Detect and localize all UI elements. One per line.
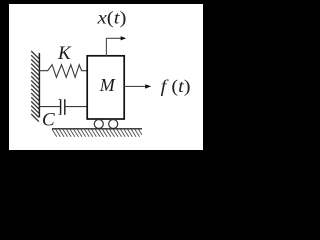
- spring K: [39, 65, 87, 78]
- mass M box: [87, 56, 124, 119]
- svg-text:K: K: [57, 43, 72, 64]
- black page background: [0, 0, 211, 194]
- damper C (dashpot): [39, 99, 87, 115]
- bottom tick: [59, 114, 61, 116]
- displacement arrow x(t): [106, 38, 120, 56]
- white diagram card: [9, 4, 203, 150]
- svg-text:M: M: [99, 75, 116, 95]
- ground line: [52, 128, 142, 130]
- wall hatching: [31, 51, 39, 122]
- wheel right: [109, 120, 118, 129]
- force arrow f(t): [124, 85, 145, 87]
- right lead: [65, 106, 87, 108]
- left lead: [39, 106, 60, 108]
- ground hatching: [52, 129, 142, 137]
- top tick: [59, 98, 61, 100]
- wheel left: [94, 120, 103, 129]
- piston plate: [60, 99, 62, 115]
- svg-text:f (t): f (t): [161, 76, 191, 97]
- cylinder back plate: [64, 99, 66, 115]
- svg-text:C: C: [42, 109, 55, 130]
- svg-text:x(t): x(t): [96, 8, 126, 29]
- wall line: [38, 53, 40, 117]
